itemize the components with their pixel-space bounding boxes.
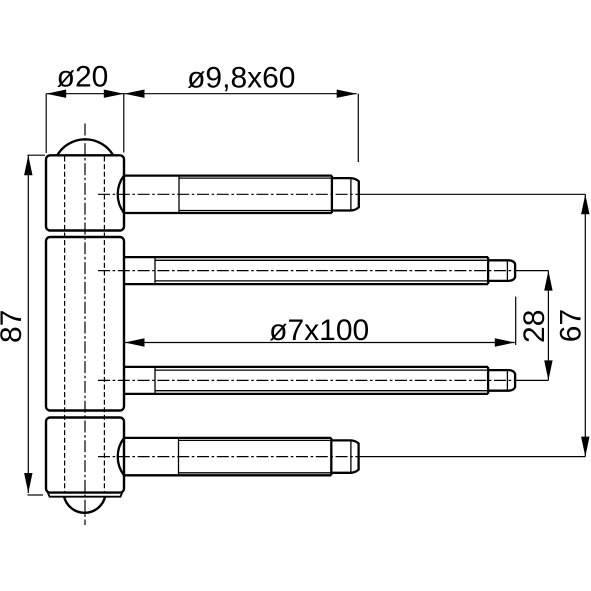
dimension 28 extension line from pin 2	[517, 270, 548, 272]
dimension o7x100 extension line right	[515, 297, 517, 345]
pin 2 thread root lines	[155, 260, 488, 281]
pin 1 center line	[98, 193, 362, 195]
dimension o7x100 line	[125, 342, 515, 344]
pin 3 (lower middle, o7x100) outline	[124, 367, 488, 394]
arrow 87 bottom	[24, 473, 32, 493]
arrow 87 top	[24, 155, 32, 175]
pin 2 collar line	[154, 257, 156, 284]
svg-text:ø9,8x60: ø9,8x60	[187, 62, 295, 95]
body vertical center line	[84, 124, 86, 526]
pin 2 tip chamfer line	[506, 260, 508, 281]
hinge body bottom dome cap	[64, 497, 105, 513]
arrow 67 bottom	[581, 437, 589, 457]
svg-text:ø7x100: ø7x100	[269, 314, 369, 347]
pin 2 thread end line	[487, 257, 489, 284]
dimension 87 line	[27, 155, 29, 493]
top dimension line	[46, 93, 357, 95]
svg-text:67: 67	[555, 309, 588, 342]
pin 4 thread root lines	[179, 440, 332, 472]
pin 1 thread root lines	[179, 178, 332, 210]
hinge body middle section	[46, 237, 124, 411]
arrow o9,8x60 left	[125, 90, 145, 98]
pin 4 rounded left end	[118, 438, 124, 475]
pin 3 center line	[98, 379, 517, 381]
dimension 67 extension line from pin 1	[362, 193, 585, 195]
dimension o20 extension line left	[45, 94, 47, 153]
hinge body lower knuckle	[46, 418, 124, 493]
svg-text:87: 87	[0, 310, 28, 343]
dimension 28 line	[547, 271, 549, 381]
arrow o20 left	[46, 90, 66, 98]
pin 4 thread end line	[330, 438, 332, 475]
pin 2 center line	[98, 270, 517, 272]
arrow 28 top	[544, 271, 552, 291]
hinge body bottom rim	[48, 493, 122, 497]
arrow o7x100 left	[125, 338, 145, 346]
pin 1 tip	[332, 178, 359, 210]
arrow 28 bottom	[544, 360, 552, 380]
pin 4 thread start line	[178, 438, 180, 475]
pin 4 (bottom, o9.8x60) outline	[124, 438, 331, 475]
pin 1 rounded left end	[118, 176, 124, 213]
pin 1 tip chamfer line	[350, 178, 352, 210]
pin 2 tip	[488, 260, 515, 281]
pin 3 tip	[488, 370, 515, 391]
dimension 87 extension line bottom	[28, 494, 44, 496]
dimension 67 line	[584, 194, 586, 456]
pin 3 tip chamfer line	[506, 370, 508, 391]
pin 3 collar line	[154, 367, 156, 394]
pin 1 thread start line	[178, 176, 180, 213]
dimension 87 extension line top	[28, 154, 46, 156]
arrow o9,8x60 right	[337, 90, 357, 98]
arrow o7x100 right	[495, 338, 515, 346]
dimension o9,8x60 extension line right	[357, 94, 359, 162]
svg-text:ø20: ø20	[57, 61, 109, 94]
dimension 67 extension line from pin 4	[362, 456, 585, 458]
pin 1 (top, o9.8x60) outline	[124, 176, 332, 213]
pin 3 thread end line	[487, 367, 489, 394]
dimension o20 extension line right	[123, 94, 125, 153]
pin 1 thread end line	[331, 176, 333, 213]
pin 3 thread root lines	[155, 370, 488, 391]
dimension 28 extension line from pin 3	[517, 379, 548, 381]
svg-text:28: 28	[518, 310, 551, 343]
hidden bore line left (dashed)	[64, 157, 66, 492]
hinge body upper knuckle	[46, 155, 124, 230]
pin 4 tip	[331, 440, 358, 472]
hinge body top dome cap	[57, 139, 113, 155]
hidden bore line right (dashed)	[103, 157, 105, 492]
pin 2 (upper middle, o7x100) outline	[124, 257, 488, 284]
arrow o20 right	[104, 90, 124, 98]
arrow 67 top	[581, 194, 589, 214]
pin 4 center line	[98, 456, 362, 458]
pin 4 tip chamfer line	[350, 440, 352, 472]
